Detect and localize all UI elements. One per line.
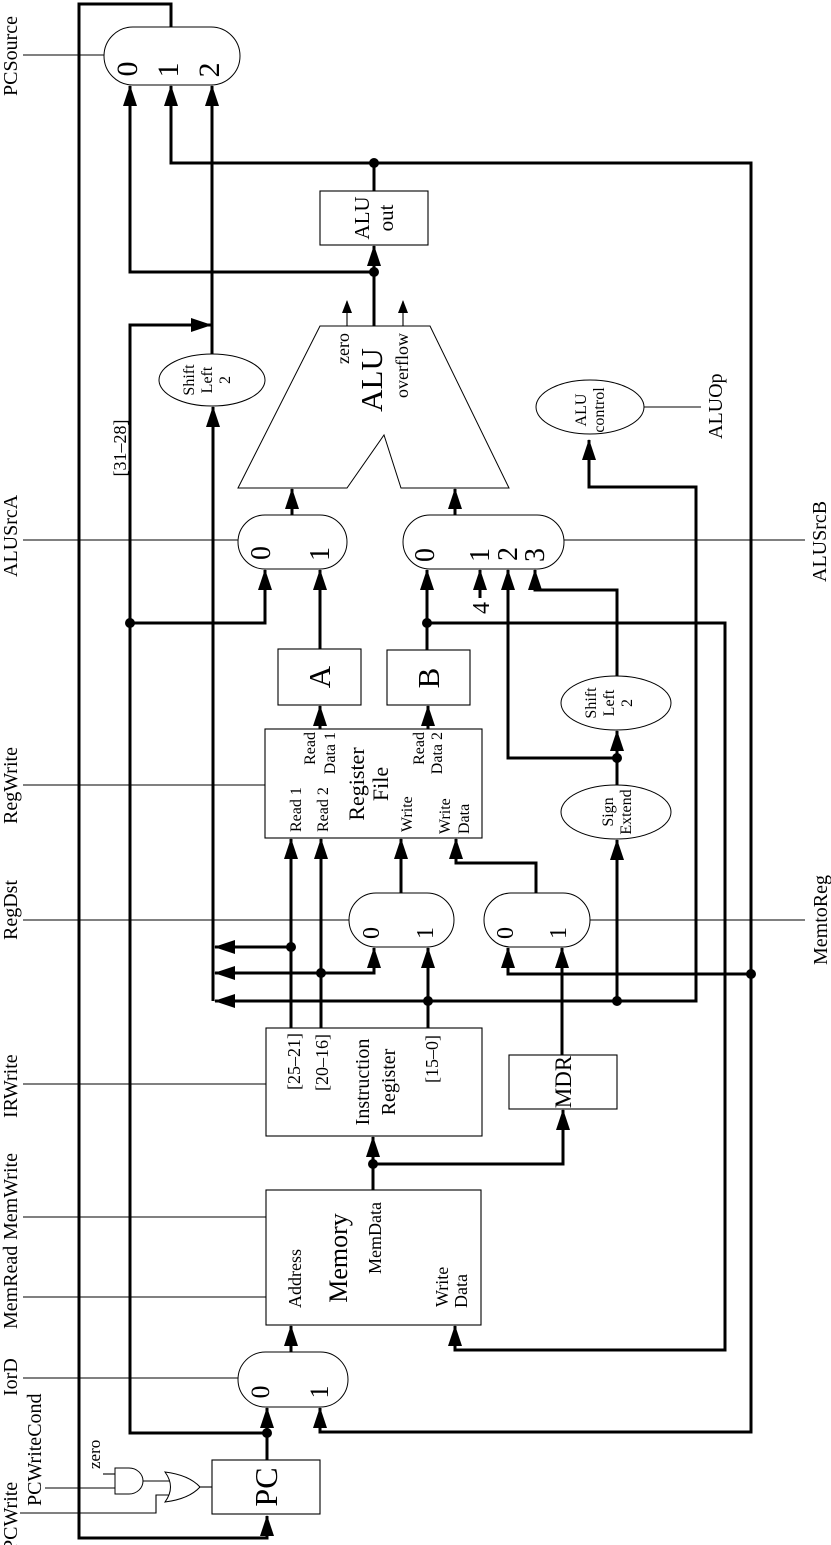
register MDR (Memory Data Register) [509,1055,617,1109]
svg-text:zero: zero [333,333,353,364]
svg-text:Extend: Extend [618,789,635,834]
svg-text:0: 0 [111,62,144,77]
ALU control unit [536,380,644,434]
svg-text:0: 0 [410,548,441,562]
wire AND output to OR gate [143,1480,170,1482]
control line MemRead to Memory [23,1296,266,1298]
svg-text:IorD: IorD [0,1358,22,1396]
mux IorD [238,1352,348,1407]
svg-text:Memory: Memory [324,1213,353,1303]
svg-text:Instruction: Instruction [352,1039,374,1126]
svg-text:PCWrite: PCWrite [0,1482,22,1545]
svg-text:ALU: ALU [573,393,590,426]
node sign extend branch [612,996,622,1006]
svg-text:MemData: MemData [365,1202,385,1274]
svg-text:1: 1 [465,548,496,562]
wire PC line up and across top to jump-address join [130,325,267,1433]
wire sign extend output [616,758,619,785]
wire branch to sign extend [616,840,619,1001]
svg-text:[25–21]: [25–21] [284,1033,304,1090]
svg-text:Data 2: Data 2 [429,732,446,774]
svg-text:2: 2 [217,376,234,384]
svg-text:A: A [302,665,337,688]
wire jump shift output to PCSource mux input 2 [211,86,214,354]
sign extend unit [561,785,671,839]
svg-text:Read 1: Read 1 [288,787,305,832]
svg-text:control: control [591,387,608,433]
svg-text:Read: Read [302,732,319,765]
svg-text:Address: Address [285,1249,305,1308]
wire IR [25-21] to Register File Read 1 [290,839,293,1028]
svg-text:Register: Register [378,1048,400,1115]
wire zero flag output [346,301,348,326]
node ALUout feedback branch to MemtoReg mux [746,969,756,979]
wire tap IR[25-21] up into jump address bus [215,946,291,949]
svg-text:overflow: overflow [392,333,412,398]
control line IRWrite to Instruction Register [23,1083,266,1085]
svg-text:Shift: Shift [181,364,198,396]
wire ALU result up to PCSource mux input 0 [130,86,374,272]
svg-text:[15–0]: [15–0] [422,1035,442,1083]
wire tap IR[15-0] up into jump address bus [215,1000,428,1003]
wire IR [15-0] to RegDst mux input 1 [427,948,430,1028]
OR gate (PCWrite OR branch-taken) [165,1472,200,1502]
svg-text:ALUSrcB: ALUSrcB [809,501,831,582]
node PC line branch to ALUSrcA mux [125,618,135,628]
register B [387,650,470,705]
control line MemWrite to Memory [23,1216,266,1218]
wire ALUSrcB mux output to ALU input B [454,489,457,515]
svg-text:PCSource: PCSource [0,16,22,96]
svg-text:Data: Data [451,1274,471,1308]
svg-text:1: 1 [546,927,572,939]
svg-text:Write: Write [399,796,416,832]
svg-text:IRWrite: IRWrite [0,1054,22,1118]
svg-text:1: 1 [413,927,439,939]
wire B register to Memory Write Data [427,623,725,1350]
wire PC output to junction [266,1433,269,1460]
control line RegDst to mux [23,919,349,921]
wire sign extend to ALUSrcB mux input 2 [508,570,617,758]
svg-text:out: out [374,204,398,231]
register file [265,729,482,838]
svg-text:zero: zero [85,1440,104,1469]
mux ALUSrcB [403,515,564,569]
mux MemtoReg [484,893,590,947]
svg-text:ALUOp: ALUOp [705,373,727,439]
control line PCWrite to OR gate [20,1495,172,1513]
svg-text:MemRead: MemRead [0,1246,22,1329]
wire MDR output to MemtoReg mux input 1 [561,948,564,1055]
wire constant 4 to ALUSrcB mux input 1 [479,570,482,598]
node IR[20-16] branch junction [316,968,326,978]
svg-text:2: 2 [193,63,226,78]
memory unit [266,1190,481,1325]
svg-text:2: 2 [619,699,636,707]
control line PCWriteCond to AND gate [45,1487,115,1489]
svg-text:[20–16]: [20–16] [312,1034,332,1091]
wire sign extend to shift left 2 [616,731,619,758]
svg-text:Write: Write [432,1267,452,1307]
svg-text:B: B [411,668,446,689]
wire IorD mux output to Memory Address [290,1326,293,1352]
svg-text:RegDst: RegDst [0,880,22,940]
wire ALUout up to PCSource mux input 1 [171,86,374,163]
svg-text:3: 3 [520,548,551,562]
ALU [238,326,509,488]
register ALUout [320,191,428,245]
control line ALUOp to ALU control [644,406,701,408]
shift left 2 unit (jump address) [159,354,265,406]
node ALU result branch [369,267,379,277]
svg-text:Data: Data [456,804,473,834]
wire PC branch down to ALUSrcA mux input 0 [130,570,265,623]
svg-text:Data 1: Data 1 [322,732,339,774]
control line ALUSrcA to mux [23,539,238,541]
wire OR gate output to PC write enable [199,1486,212,1488]
svg-text:Write: Write [437,798,454,834]
svg-text:PCWriteCond: PCWriteCond [24,1393,46,1506]
node ALUout output junction [369,158,379,168]
node IR[25-21] branch to jump bus [286,942,296,952]
svg-text:Left: Left [601,689,618,716]
svg-text:Sign: Sign [600,797,617,826]
wire zero into AND gate [103,1473,115,1475]
svg-text:Shift: Shift [583,687,600,719]
control line ALUSrcB to mux [564,539,805,541]
mux PCSource [104,27,240,85]
node PC output junction [262,1428,272,1438]
register IR (Instruction Register) [266,1028,482,1136]
wire MemData branch down to MDR [373,1110,563,1164]
svg-text:PC: PC [248,1467,284,1506]
wire B register output to ALUSrcB mux input 0 [426,570,429,650]
wire Register File Read Data 2 to B register [427,706,430,729]
wire ALU result to ALUout register [373,246,376,326]
svg-text:1: 1 [152,63,185,78]
control line RegWrite to Register File [23,784,265,786]
svg-text:Left: Left [199,366,216,393]
AND gate (PCWriteCond AND zero) [115,1468,143,1494]
wire IR[20-16] down to RegDst mux input 0 [321,948,374,973]
wire tap IR[20-16] up into jump address bus [215,972,321,975]
wire jump address bus to shift left 2 [212,407,215,1001]
svg-text:RegWrite: RegWrite [0,747,22,824]
svg-text:0: 0 [493,927,519,939]
wire IR[15-0] down to sign extend and ALU control [428,440,696,1001]
svg-text:1: 1 [305,547,336,561]
mux RegDst [349,893,454,947]
wire PCSource mux output to PC input (top long feedback) [79,4,267,1538]
register PC [212,1460,320,1514]
wire Register File Read Data 1 to A register [319,706,322,729]
svg-text:File: File [368,767,393,801]
svg-text:ALUSrcA: ALUSrcA [0,494,22,577]
svg-text:MDR: MDR [551,1055,576,1108]
node MemData branch to MDR [368,1159,378,1169]
wire shift left 2 output to ALUSrcB mux input 3 [535,570,617,676]
svg-text:Register: Register [344,747,369,821]
wire ALUout register output [373,163,376,191]
shift left 2 unit (branch offset) [561,676,671,730]
node sign extend output junction [612,753,622,763]
svg-text:0: 0 [246,1386,275,1399]
svg-text:[31–28]: [31–28] [110,420,130,477]
svg-text:0: 0 [246,546,277,560]
wire Memory MemData output to Instruction Register [372,1137,375,1190]
wire branch up to MemtoReg mux input 0 [508,948,751,974]
wire ALUout feedback into IorD mux input 1 [320,163,751,1432]
svg-text:1: 1 [305,1386,334,1399]
node IR[15-0] bus junction [423,996,433,1006]
wire IR [20-16] to Register File Read 2 [320,839,323,1028]
svg-text:Read 2: Read 2 [315,787,332,832]
wire MemtoReg mux output to Register File Write Data [456,839,536,893]
control line MemtoReg to mux [590,919,805,921]
svg-text:MemtoReg: MemtoReg [810,875,831,965]
register A [278,649,361,705]
wire RegDst mux output to Register File Write [400,839,403,893]
wire junction to IorD mux input 0 [266,1408,269,1433]
svg-text:Read: Read [411,732,428,765]
wire overflow flag output [402,301,404,326]
svg-text:4: 4 [469,602,495,614]
svg-text:0: 0 [359,927,385,939]
control line IorD to mux [23,1377,238,1379]
svg-text:ALU: ALU [350,196,374,239]
control line PCSource to mux [23,54,104,56]
wire A register output to ALUSrcA mux input 1 [319,570,322,649]
svg-text:ALU: ALU [354,348,389,412]
svg-text:MemWrite: MemWrite [0,1153,22,1240]
node B output branch to memory write data [422,618,432,628]
wire ALUSrcA mux output to ALU input A [291,489,294,515]
mux ALUSrcA [238,515,347,569]
